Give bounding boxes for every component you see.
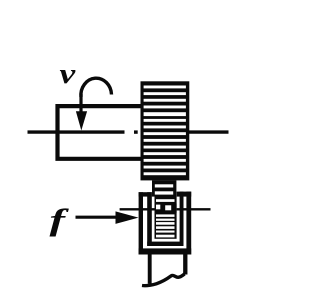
left inner wall [147,192,152,246]
nut band with white notches [155,204,177,213]
grinding wheel / hob (striped) [141,81,190,180]
svg-text:v: v [60,57,76,89]
rotation arc for v [81,78,112,97]
v arrow (down onto centerline) [79,94,82,114]
label v [60,57,76,89]
inner bottom bar [147,242,183,246]
right cap [177,192,192,197]
left outer wall [139,192,143,254]
screw axis line through housing [120,208,211,210]
outer bottom bar [139,248,192,254]
left cap [139,192,152,196]
right inner wall [180,192,184,246]
workpiece cylinder (rect, open right side under wheel) [58,106,143,159]
right outer wall [186,192,191,255]
centerline of workpiece shaft (dash-dot) [28,130,229,133]
threaded stem / screw arbor (striped) [152,180,177,238]
f arrow (feed, pointing right at housing) [76,216,122,219]
housing bracket (double-walled yoke) [139,192,192,255]
label f [50,203,70,238]
lower support shaft with break line [142,254,185,285]
